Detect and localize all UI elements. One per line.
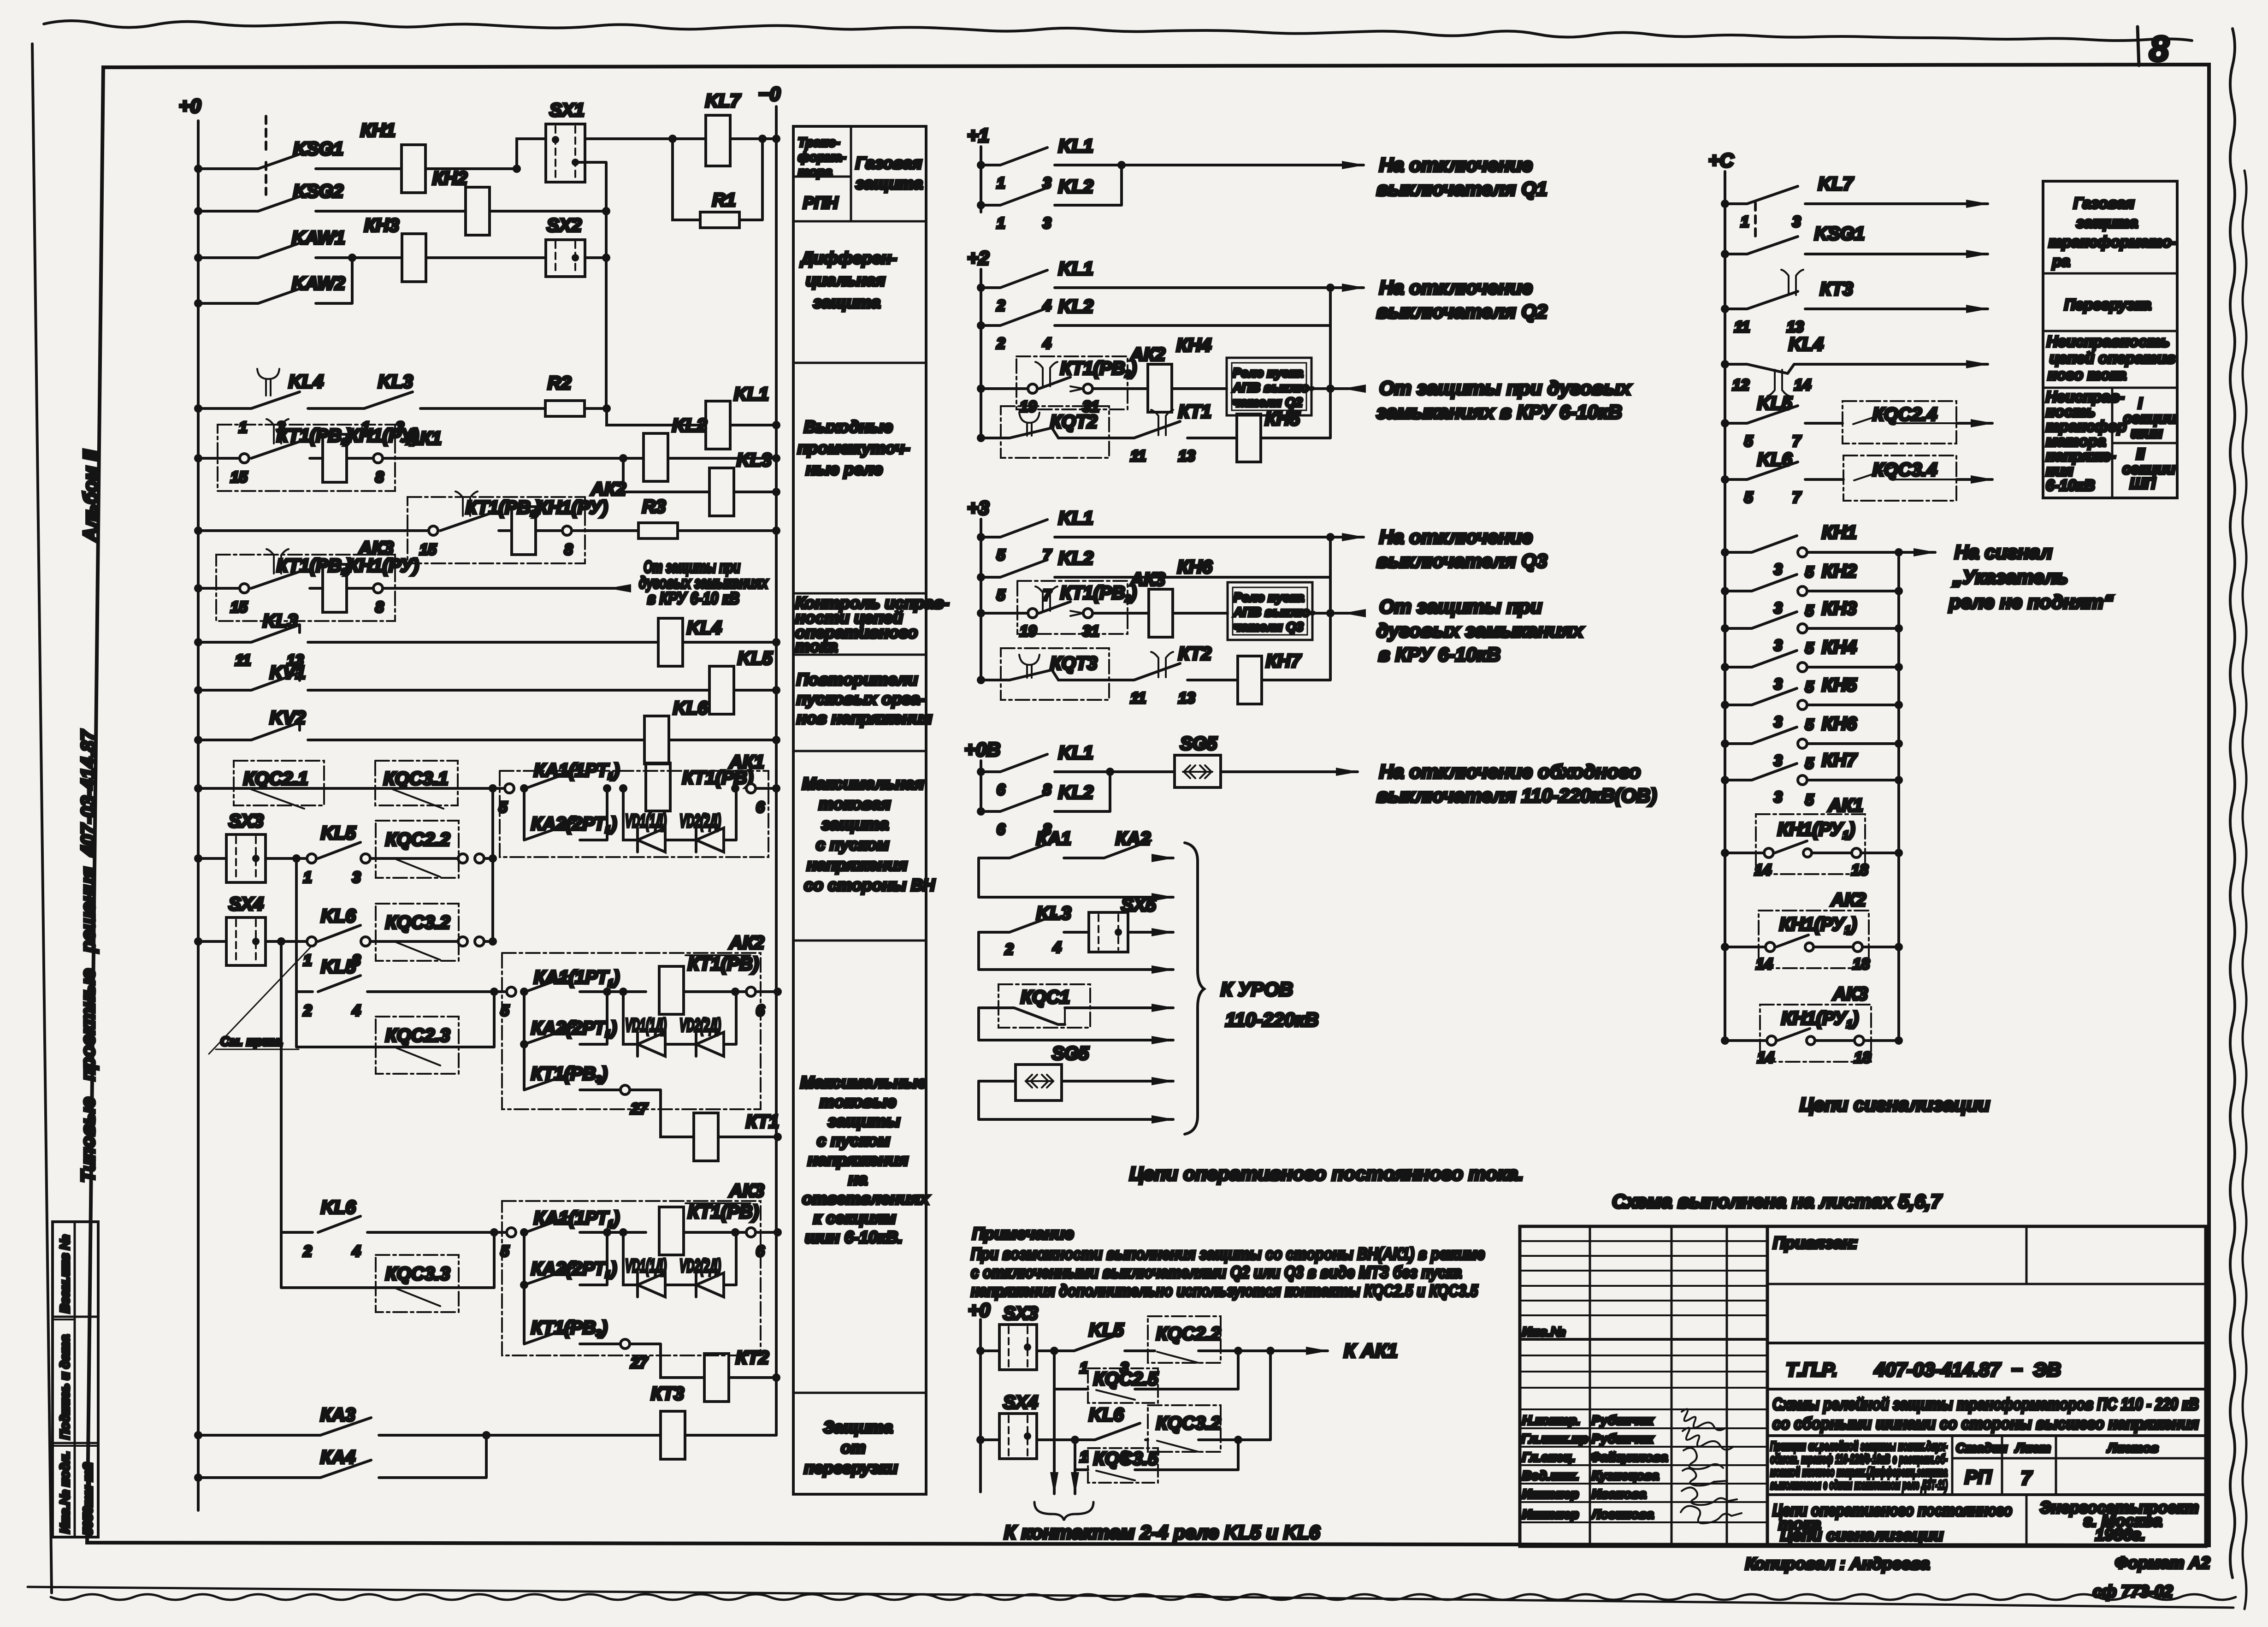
svg-text:Подпись и дата: Подпись и дата: [58, 1335, 72, 1439]
contact KQC2.1: [194, 784, 202, 793]
relay coil KL3: [623, 458, 709, 492]
svg-text:АК2: АК2: [591, 479, 626, 499]
protection block AK2 (МТЗ 6-10кВ): [502, 953, 761, 1109]
contact KH4: [1721, 663, 1729, 671]
svg-text:трансформато-: трансформато-: [2049, 233, 2177, 250]
svg-text:Максимальная: Максимальная: [802, 774, 924, 793]
time relay coil KT3: [661, 1411, 685, 1459]
svg-text:ответвлениях: ответвлениях: [802, 1189, 930, 1208]
svg-text:АК3: АК3: [1832, 984, 1868, 1004]
diode VD1(1Д) and VD2(2Д) in AK1: [623, 788, 736, 840]
contact KL3: [364, 392, 545, 408]
svg-text:КН2: КН2: [432, 168, 467, 189]
svg-text:Цепи сигнализации: Цепи сигнализации: [1800, 1094, 1990, 1115]
svg-text:+0: +0: [968, 1299, 990, 1321]
svg-text:АК2: АК2: [1831, 890, 1866, 910]
test block SX1: [546, 124, 585, 182]
svg-text:2: 2: [1004, 941, 1014, 958]
svg-text:обмот. трансф 110-220/6-10кВ с: обмот. трансф 110-220/6-10кВ с расщепл.о…: [1770, 1452, 1948, 1466]
svg-text:Гл.спец.: Гл.спец.: [1522, 1450, 1575, 1464]
signal block AK3 with contact КН1(РУ1): [1897, 947, 1900, 1041]
svg-text:Рубинчик: Рубинчик: [1592, 1413, 1654, 1427]
contact KH7: [1721, 776, 1729, 784]
resistor R2: [545, 401, 585, 416]
svg-text:11: 11: [1130, 447, 1146, 464]
svg-text:КН1(РУ): КН1(РУ): [348, 556, 419, 576]
svg-text:110-220кВ: 110-220кВ: [1225, 1009, 1319, 1030]
svg-text:2: 2: [996, 297, 1005, 314]
svg-text:шин 6-10кВ.: шин 6-10кВ.: [805, 1228, 903, 1247]
contact KSG1 (+C): [1721, 250, 1729, 258]
relay coil KH5: [1237, 414, 1261, 462]
svg-text:Защита: Защита: [823, 1418, 893, 1437]
title block frame: [1520, 1226, 2206, 1546]
svg-text:КА2(2РТ1): КА2(2РТ1): [531, 1018, 617, 1039]
svg-text:КТ1(РВ): КТ1(РВ): [688, 1202, 759, 1222]
svg-text:3: 3: [1792, 213, 1801, 230]
contact KQC3.2 (note): [1148, 1405, 1221, 1452]
wire На сигнал with arrow: [1899, 551, 1935, 554]
svg-text:защиты: защиты: [828, 1112, 900, 1130]
contact KSG1: [194, 165, 202, 173]
svg-text:+2: +2: [967, 247, 989, 269]
contact KL6 (+C 5-7) with KQC3.4: [1721, 475, 1729, 484]
note leader См.прим.: [209, 946, 312, 1054]
svg-text:6: 6: [997, 781, 1005, 798]
svg-text:Привязан:: Привязан:: [1773, 1233, 1858, 1252]
svg-text:KL6: KL6: [1757, 450, 1792, 470]
svg-text:Повторители: Повторители: [797, 670, 918, 689]
svg-text:27: 27: [630, 1354, 648, 1371]
svg-text:КА3: КА3: [320, 1405, 355, 1425]
svg-text:КН3: КН3: [1822, 598, 1857, 619]
sheet outer border top (wavy scan edge): [44, 21, 2192, 41]
relay coil KL5: [709, 666, 734, 714]
svg-text:3: 3: [1774, 599, 1782, 616]
contact KT1 (11-13): [1151, 410, 1173, 435]
test block SX3: [194, 854, 202, 863]
svg-text:„Указатель: „Указатель: [1952, 566, 2068, 588]
svg-text:КН2: КН2: [1822, 561, 1857, 581]
svg-text:реле не поднят“: реле не поднят“: [1949, 591, 2113, 613]
svg-text:КН4: КН4: [1822, 637, 1857, 657]
svg-text:SX5: SX5: [1121, 895, 1156, 915]
classification table column: [793, 126, 926, 1494]
svg-text:См. прим.: См. прим.: [220, 1034, 283, 1048]
contact KA1(1РТ1) in AK1: [505, 784, 514, 793]
contact KA4: [194, 1473, 202, 1482]
svg-text:2: 2: [303, 1242, 312, 1260]
relay coil KL7: [706, 115, 730, 166]
svg-text:замыканиях в КРУ 6-10кВ: замыканиях в КРУ 6-10кВ: [1376, 401, 1622, 423]
svg-text:15: 15: [230, 598, 248, 615]
svg-text:На отключение: На отключение: [1379, 154, 1533, 176]
svg-text:5: 5: [1805, 678, 1814, 695]
svg-text:КТ1(РВ): КТ1(РВ): [688, 954, 759, 974]
contact KL7 (+C): [1721, 200, 1729, 208]
svg-text:KL4: KL4: [687, 618, 722, 638]
svg-text:АК3: АК3: [729, 1181, 764, 1201]
svg-text:Цепи оперативного постоянног: Цепи оперативного постоянного тока.: [1129, 1163, 1524, 1184]
svg-text:Копировал : Андреева: Копировал : Андреева: [1745, 1554, 1930, 1573]
svg-text:Выходные: Выходные: [804, 417, 893, 436]
svg-text:KL6: KL6: [321, 906, 356, 926]
protection block AK1 (МТЗ ВН): [500, 771, 768, 857]
svg-text:1: 1: [1080, 1448, 1088, 1465]
contact KT1(РВ3) in AK2: [524, 1044, 620, 1090]
svg-text:КН1: КН1: [1822, 522, 1857, 543]
svg-text:31: 31: [1082, 622, 1099, 639]
svg-text:КТ3: КТ3: [1820, 279, 1853, 299]
wire: [585, 256, 606, 259]
svg-text:токовые: токовые: [820, 1092, 896, 1111]
time relay coil KT1: [630, 1090, 694, 1137]
contact KL6 (1-3 note): [1037, 1423, 1148, 1440]
svg-text:Максимальные: Максимальные: [800, 1073, 927, 1092]
svg-text:КН4: КН4: [1176, 335, 1211, 355]
contact KQC2.3: [296, 992, 494, 1047]
relay block AK3 (КТ1(РВ1)+КН1(РУ)): [216, 555, 395, 621]
contact KA2(2РТ1) in AK2: [524, 992, 607, 1044]
contact KV1: [194, 686, 202, 694]
svg-text:КQТ3: КQТ3: [1050, 653, 1097, 674]
svg-text:РП: РП: [1965, 1466, 1992, 1488]
contact KAW2: [194, 299, 202, 308]
svg-text:3: 3: [1774, 752, 1782, 769]
relay coil KL2: [383, 457, 644, 460]
contact KL6 (1-3): [266, 940, 307, 943]
svg-text:чателя Q3: чателя Q3: [1234, 620, 1304, 634]
protection block AK3 (МТЗ 6-10кВ): [502, 1201, 761, 1355]
svg-text:407-03-414.87 − ЭВ: 407-03-414.87 − ЭВ: [1874, 1359, 2061, 1380]
svg-text:КQC2.5: КQC2.5: [1093, 1369, 1158, 1389]
svg-text:KL1: KL1: [734, 384, 769, 404]
wire К АК1 with arrow: [1270, 1349, 1328, 1352]
svg-text:Инженер: Инженер: [1522, 1487, 1579, 1501]
svg-text:5: 5: [1805, 755, 1814, 772]
svg-text:5: 5: [1805, 791, 1814, 808]
contact KL3 (2-4) with SX5: [979, 915, 1089, 932]
svg-text:Гл.инж.пр: Гл.инж.пр: [1521, 1432, 1588, 1446]
svg-text:1986г.: 1986г.: [2095, 1525, 2145, 1544]
svg-text:Схема выполнена на листах: Схема выполнена на листах 5,6,7: [1612, 1190, 1942, 1212]
svg-text:KL3: KL3: [378, 372, 413, 392]
contact KL1 (+2): [977, 284, 985, 292]
svg-text:КН1(РУ): КН1(РУ): [537, 497, 608, 518]
time relay coil KT2: [630, 1344, 704, 1378]
contact KA1(1РТ1) in AK3: [507, 1228, 516, 1237]
svg-text:От защиты при дуговых: От защиты при дуговых: [1379, 377, 1631, 399]
svg-text:18: 18: [1853, 955, 1870, 972]
test block SX4: [194, 937, 202, 946]
svg-text:KL5: KL5: [1089, 1320, 1124, 1340]
svg-text:VD2(2Д): VD2(2Д): [679, 1256, 721, 1276]
svg-text:R2: R2: [548, 373, 571, 393]
svg-text:На отключение: На отключение: [1379, 277, 1533, 298]
svg-text:5: 5: [1744, 432, 1753, 450]
svg-text:+0В: +0В: [964, 739, 1000, 760]
resistor R1: [673, 139, 762, 220]
svg-text:КТ1(РВ): КТ1(РВ): [682, 768, 753, 788]
svg-text:КТ1: КТ1: [1178, 402, 1211, 422]
svg-text:выключателя Q2: выключателя Q2: [1376, 301, 1547, 323]
svg-text:5: 5: [1805, 602, 1814, 619]
cell Привязан: [2026, 1226, 2028, 1284]
svg-text:Т.П.Р.: Т.П.Р.: [1786, 1359, 1837, 1380]
svg-text:27: 27: [630, 1100, 648, 1117]
svg-text:сф 773-02: сф 773-02: [2093, 1582, 2173, 1601]
svg-text:Схемы релейной защиты трансфо: Схемы релейной защиты трансформаторов ПС…: [1772, 1395, 2199, 1414]
svg-text:5: 5: [1805, 716, 1814, 733]
contact KH3: [1721, 624, 1729, 633]
svg-text:11: 11: [1734, 318, 1750, 335]
svg-text:К АК1: К АК1: [1344, 1340, 1398, 1361]
contact KL3 (11-13): [194, 638, 202, 646]
wire to Q1 trip with arrow: [1117, 161, 1126, 169]
relay block AK2 with contact KT1(РВ2) (+2): [977, 385, 985, 393]
separator SG5: [1175, 755, 1221, 787]
wire UROV loop 4: [979, 1081, 1173, 1119]
svg-text:VD1(1Д): VD1(1Д): [625, 1256, 667, 1276]
svg-text:4: 4: [1042, 335, 1051, 352]
svg-text:3: 3: [1774, 561, 1782, 578]
relay block AK3 with contact KT1(РВ2) (+3): [977, 609, 985, 617]
svg-text:KL2: KL2: [1058, 177, 1093, 197]
svg-text:8: 8: [375, 468, 384, 485]
contact KQC1: [998, 984, 1090, 1028]
svg-text:КQC2.1: КQC2.1: [243, 769, 308, 789]
contact KA1 and KA2 (УРОВ row): [979, 840, 1166, 858]
contact KH1: [1721, 548, 1729, 556]
contact KQC2.4: [1843, 401, 1956, 444]
svg-text:К контактам 2-4 реле KL5 и KL6: К контактам 2-4 реле KL5 и KL6: [1004, 1521, 1320, 1543]
svg-text:Стадия: Стадия: [1956, 1441, 2008, 1455]
svg-text:VD1(1Д): VD1(1Д): [625, 1015, 667, 1035]
svg-text:KL5: KL5: [738, 648, 773, 669]
svg-text:KAW2: KAW2: [292, 273, 345, 294]
svg-text:Дифферен-: Дифферен-: [800, 248, 897, 267]
svg-text:КН7: КН7: [1822, 750, 1857, 770]
svg-text:3: 3: [1774, 788, 1782, 805]
svg-text:со стороны ВН: со стороны ВН: [804, 876, 935, 894]
svg-text:КН3: КН3: [364, 215, 399, 236]
wire: [490, 210, 606, 213]
svg-text:SX3: SX3: [1003, 1303, 1038, 1324]
relay coil KH2: [466, 187, 490, 235]
svg-text:КН5: КН5: [1265, 409, 1300, 429]
wire: [585, 137, 706, 140]
svg-text:6: 6: [997, 821, 1005, 838]
svg-text:8: 8: [564, 541, 573, 558]
svg-text:18: 18: [1854, 1049, 1871, 1066]
svg-text:1: 1: [303, 869, 312, 886]
svg-text:5050тм-т2: 5050тм-т2: [81, 1462, 95, 1535]
svg-text:АПВ выклю-: АПВ выклю-: [1232, 380, 1313, 395]
sheet outer border right (double wavy): [2230, 29, 2235, 1578]
svg-text:6: 6: [756, 1242, 765, 1260]
svg-text:KL4: KL4: [289, 372, 324, 392]
svg-text:выключателя 110-220кВ(ОВ): выключателя 110-220кВ(ОВ): [1376, 785, 1657, 806]
svg-text:промежуточ-: промежуточ-: [797, 438, 910, 457]
svg-text:KL2: KL2: [1058, 782, 1093, 803]
relay coil KL4: [658, 618, 683, 666]
contact KL1 (+3): [977, 533, 985, 541]
brace under arrows: [1034, 1502, 1093, 1521]
svg-text:12: 12: [1732, 376, 1749, 393]
svg-text:КТ3: КТ3: [651, 1384, 684, 1404]
contact KQC2.2: [370, 857, 457, 860]
svg-text:R3: R3: [642, 497, 666, 517]
svg-text:выключателя Q3: выключателя Q3: [1376, 550, 1547, 572]
svg-text:защита: защита: [2076, 214, 2138, 231]
contact KV2: [194, 736, 202, 744]
svg-text:18: 18: [1851, 861, 1868, 878]
svg-text:Газовая: Газовая: [2073, 195, 2134, 212]
contact KQC3.3: [281, 1232, 494, 1288]
contact KL4: [194, 404, 202, 413]
svg-text:Принцип сх.релейной защиты по: Принцип сх.релейной защиты пониж.двух-: [1770, 1439, 1948, 1453]
svg-text:5: 5: [501, 1242, 509, 1260]
contact KAW1: [194, 254, 202, 262]
svg-text:3: 3: [1774, 637, 1782, 654]
svg-text:2: 2: [303, 1002, 312, 1019]
svg-text:SX3: SX3: [229, 811, 264, 831]
svg-text:в КРУ 6-10 кВ: в КРУ 6-10 кВ: [647, 589, 739, 608]
svg-text:KSG2: KSG2: [293, 181, 343, 201]
contact KL5 (1-3): [266, 857, 307, 860]
svg-text:VD1(1Д): VD1(1Д): [625, 811, 667, 831]
contact KQC3.1: [375, 761, 458, 805]
contact KH2: [1721, 587, 1729, 595]
svg-text:КQC3.3: КQC3.3: [385, 1264, 450, 1284]
svg-text:КА4: КА4: [320, 1447, 355, 1467]
contact KA2(2РТ1) in AK3: [524, 1232, 607, 1285]
svg-text:напряжения дополнительно исп: напряжения дополнительно используются ко…: [971, 1281, 1478, 1300]
svg-text:от: от: [841, 1438, 866, 1457]
svg-text:Иванова: Иванова: [1592, 1487, 1646, 1501]
svg-text:Формат А2: Формат А2: [2115, 1553, 2210, 1572]
svg-text:Транс-: Транс-: [798, 135, 840, 149]
brace К УРОВ: [1185, 843, 1204, 1134]
svg-text:Газовая: Газовая: [856, 154, 922, 172]
svg-text:14: 14: [1794, 376, 1811, 393]
svg-text:АК2: АК2: [729, 933, 764, 953]
svg-text:1: 1: [239, 419, 247, 436]
svg-text:KL6: KL6: [673, 698, 708, 718]
separator SG5 (УРОВ): [1016, 1065, 1062, 1100]
svg-text:KSG1: KSG1: [293, 139, 343, 159]
contact KL5 (+C 5-7) with KQC2.4: [1721, 419, 1729, 427]
svg-text:защита: защита: [856, 174, 923, 193]
wire with incoming arrow (От защиты): [383, 587, 627, 590]
svg-text:КН6: КН6: [1177, 557, 1212, 577]
svg-text:ного тока: ного тока: [2048, 366, 2126, 383]
svg-text:РПН: РПН: [803, 193, 839, 212]
svg-text:тока: тока: [795, 637, 838, 656]
contact KQT3: [977, 676, 985, 684]
svg-text:6: 6: [756, 1002, 765, 1019]
signal destination table (right): [2043, 181, 2177, 498]
svg-text:4: 4: [1052, 939, 1061, 956]
svg-text:КQC2.3: КQC2.3: [385, 1025, 450, 1046]
svg-text:2: 2: [996, 335, 1005, 352]
wire to bypass breaker trip: [1221, 770, 1358, 773]
svg-text:4: 4: [352, 1242, 360, 1260]
svg-text:моткой низшего напряж.(Диффере: моткой низшего напряж.(Дифференц.защита: [1770, 1465, 1948, 1479]
svg-text:5: 5: [1744, 489, 1753, 506]
svg-text:КQC2.2: КQC2.2: [385, 829, 450, 850]
svg-text:15: 15: [230, 468, 248, 485]
svg-text:КА1: КА1: [1036, 828, 1071, 849]
test block SX4 (note): [976, 1436, 985, 1444]
svg-text:Реле пуска: Реле пуска: [1234, 590, 1304, 604]
svg-text:KL4: KL4: [1789, 334, 1824, 355]
contact KQC3.5: [1075, 1440, 1088, 1470]
svg-text:KV2: KV2: [270, 708, 306, 728]
svg-text:KL1: KL1: [1058, 743, 1093, 763]
svg-text:14: 14: [1754, 861, 1772, 878]
svg-text:На отключение: На отключение: [1379, 526, 1533, 548]
wire: [425, 139, 546, 169]
svg-text:дуговых замыканиях: дуговых замыканиях: [1376, 620, 1584, 641]
resistor R3: [572, 529, 638, 532]
contact KQC3.2: [370, 940, 457, 943]
svg-text:KL3: KL3: [263, 611, 298, 631]
svg-text:защита: защита: [813, 293, 880, 312]
svg-text:KL2: KL2: [672, 415, 707, 436]
svg-text:нов напряжения: нов напряжения: [797, 709, 932, 728]
contact KT3 (+C 11-13): [1721, 305, 1729, 313]
svg-text:КН6: КН6: [1822, 714, 1857, 734]
svg-text:KL7: KL7: [1818, 174, 1854, 194]
svg-text:R1: R1: [712, 190, 736, 210]
svg-text:Взам.инв №: Взам.инв №: [58, 1235, 72, 1313]
relay coil KH3: [402, 234, 426, 282]
svg-text:VD2(2Д): VD2(2Д): [679, 1015, 721, 1035]
svg-text:Реле пуска: Реле пуска: [1233, 366, 1303, 380]
contact KL1 (+0В): [977, 768, 985, 776]
svg-text:ные реле: ные реле: [806, 460, 883, 479]
svg-text:в КРУ 6-10кВ: в КРУ 6-10кВ: [1378, 644, 1500, 665]
wire: [730, 137, 776, 140]
contact KQC3.4: [1843, 456, 1956, 501]
svg-text:Перегрузка: Перегрузка: [2064, 296, 2151, 313]
relay coil KL1: [706, 401, 730, 449]
relay block AK2 (КТ1(РВ1)+КН1(РУ)): [408, 497, 585, 563]
svg-text:чателя Q2: чателя Q2: [1233, 395, 1303, 409]
svg-text:KL5: KL5: [321, 823, 356, 843]
svg-text:Кузнецова: Кузнецова: [1592, 1468, 1659, 1483]
svg-text:15: 15: [419, 541, 437, 558]
svg-text:+C: +C: [1708, 149, 1734, 171]
svg-text:Логинова: Логинова: [1591, 1507, 1654, 1521]
svg-text:Лист: Лист: [2014, 1441, 2051, 1455]
svg-text:7: 7: [1792, 432, 1801, 450]
incoming arrow От защиты (+2): [1344, 387, 1364, 390]
contact KQT2: [977, 434, 985, 442]
svg-text:1: 1: [1741, 213, 1749, 230]
svg-text:КQC1: КQC1: [1021, 987, 1070, 1007]
svg-text:8: 8: [375, 598, 384, 615]
svg-text:1: 1: [1080, 1359, 1088, 1376]
svg-text:7: 7: [2021, 1467, 2032, 1489]
svg-text:5: 5: [501, 1002, 509, 1019]
contact KT2 (11-13): [1151, 652, 1173, 677]
svg-text:к секциям: к секциям: [813, 1208, 896, 1227]
svg-text:КН5: КН5: [1822, 675, 1857, 695]
svg-text:форма-: форма-: [798, 150, 846, 164]
svg-text:SX1: SX1: [549, 100, 585, 120]
